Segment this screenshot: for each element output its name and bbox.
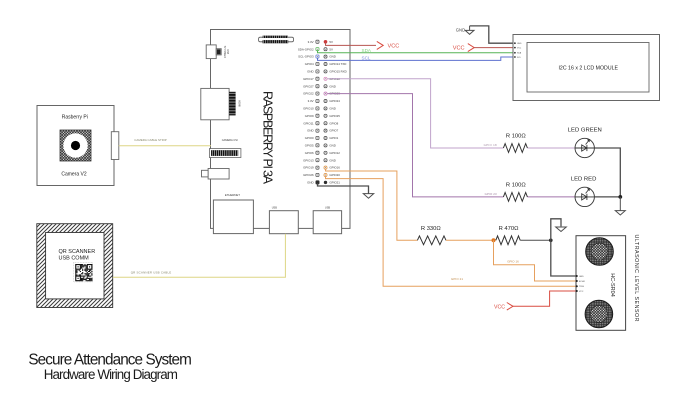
svg-text:USB: USB [325, 207, 330, 210]
svg-text:GND: GND [307, 70, 313, 74]
QR scanner USB COMM module [37, 224, 113, 308]
GPIO pin row 4: GPIO4 / GPIO14 TXD [305, 62, 347, 66]
svg-text:5V POWER: 5V POWER [223, 46, 225, 58]
svg-text:R 330Ω: R 330Ω [421, 226, 441, 232]
wire junction to sensor ECHO pin [494, 240, 577, 281]
svg-text:R 100Ω: R 100Ω [506, 134, 526, 140]
svg-text:USB: USB [272, 207, 277, 210]
svg-text:3.3V: 3.3V [308, 99, 314, 103]
ethernet connector [213, 193, 253, 234]
svg-text:5V: 5V [329, 40, 333, 44]
wire SDA (green) from SDA-GPIO2 to LCD [318, 48, 515, 53]
board label RASPBERRY PI 3A [260, 91, 274, 185]
svg-text:TRIG: TRIG [579, 286, 584, 288]
svg-text:HC-SR04: HC-SR04 [609, 273, 615, 297]
GPIO pin row 15: GPIO5 / GND [305, 144, 336, 148]
svg-text:GPIO 16: GPIO 16 [507, 259, 519, 263]
svg-text:QR SCANNER: QR SCANNER [59, 249, 96, 255]
svg-text:CAMERA CABLE STRIP: CAMERA CABLE STRIP [134, 138, 166, 142]
svg-text:Secure Attendance System: Secure Attendance System [28, 351, 192, 368]
svg-text:GPIO9: GPIO9 [305, 114, 314, 118]
svg-text:GPIO25: GPIO25 [329, 114, 340, 118]
USB port 1 [269, 207, 298, 234]
svg-text:LED GREEN: LED GREEN [568, 127, 602, 133]
wire VCC from 5V pin to arrow [326, 43, 377, 46]
svg-text:SDA: SDA [362, 48, 372, 53]
wire SCL (blue) from SCL-GPIO3 to LCD [318, 56, 515, 61]
svg-text:I2C 16 x 2 LCD MODULE: I2C 16 x 2 LCD MODULE [558, 66, 618, 72]
svg-text:Camera V2: Camera V2 [61, 172, 87, 178]
GPIO pin row 13: GND / GPIO7 [307, 129, 338, 133]
VCC arrow at LCD [453, 44, 474, 52]
GPIO pin row 2: SDA-GPIO2 / 5V [298, 47, 333, 51]
svg-text:GND: GND [517, 43, 522, 45]
svg-text:GPIO11: GPIO11 [303, 121, 314, 125]
raspberry pi camera V2 module [37, 106, 119, 186]
svg-text:CAMERA CSI: CAMERA CSI [222, 138, 238, 142]
svg-text:GPIO20: GPIO20 [329, 173, 340, 177]
svg-text:SCL: SCL [362, 56, 371, 61]
GPIO pin row 1: 3.3V / 5V [308, 40, 333, 44]
svg-text:GPIO19: GPIO19 [303, 166, 314, 170]
svg-text:USB COMM: USB COMM [59, 256, 90, 262]
svg-text:VCC: VCC [579, 291, 584, 293]
wire junction to sensor GND pin [551, 240, 577, 276]
resistor R 330 [417, 226, 492, 245]
svg-text:USB: USB [226, 49, 228, 54]
svg-text:GND: GND [579, 276, 584, 278]
GPIO pin row 5: GND / GPIO15 RXD [307, 70, 347, 74]
LED red D2 [571, 177, 597, 207]
svg-text:Hardware Wiring Diagram: Hardware Wiring Diagram [44, 367, 178, 382]
wire GND to LCD [470, 26, 515, 43]
subtitle text [44, 367, 178, 382]
GPIO pin row 8: GPIO22 / GPIO23 [303, 92, 340, 96]
wire VCC to sensor VCC pin [513, 291, 577, 306]
resistor R 470 [496, 226, 551, 245]
svg-text:GPIO21: GPIO21 [329, 181, 340, 185]
svg-text:SCL-GPIO3: SCL-GPIO3 [298, 55, 314, 59]
svg-text:R 470Ω: R 470Ω [499, 226, 519, 232]
GPIO pin row 10: GPIO10 / GND [303, 107, 336, 111]
wire LED red to junction [594, 196, 620, 198]
ground symbol near R470 [556, 227, 567, 232]
I2C 16x2 LCD module [513, 35, 660, 101]
svg-text:VCC: VCC [517, 47, 522, 49]
wire camera cable strip [119, 138, 211, 146]
svg-text:3.3V: 3.3V [308, 40, 314, 44]
GPIO pin row 3: SCL-GPIO3 / GND [298, 55, 336, 59]
svg-text:GPIO 18: GPIO 18 [484, 143, 497, 147]
wire GPIO18 (pale purple) to resistor [327, 79, 575, 148]
svg-text:GPIO1: GPIO1 [329, 136, 338, 140]
raspberry pi 3A board outline [211, 30, 351, 229]
svg-text:GPIO6: GPIO6 [305, 151, 314, 155]
QR code graphic [74, 262, 93, 282]
ultrasonic sensor HC-SR04 [576, 236, 626, 331]
svg-text:R 100Ω: R 100Ω [506, 183, 526, 189]
svg-text:GND: GND [329, 84, 335, 88]
svg-text:GPIO12: GPIO12 [329, 151, 340, 155]
HDMI connector [201, 88, 242, 119]
svg-text:GPIO4: GPIO4 [305, 62, 314, 66]
svg-text:GND: GND [456, 27, 465, 32]
GPIO pin row 19: GPIO26 / GPIO20 [303, 173, 340, 177]
svg-text:GPIO13: GPIO13 [303, 158, 314, 162]
svg-text:GPIO 23: GPIO 23 [485, 192, 497, 196]
wire GND pin to ground [318, 183, 369, 193]
svg-text:ULTRASONIC LEVEL SENSOR: ULTRASONIC LEVEL SENSOR [633, 235, 639, 322]
sensor label ULTRASONIC LEVEL SENSOR [633, 235, 639, 322]
svg-text:GPIO24: GPIO24 [329, 99, 340, 103]
title text [28, 351, 192, 368]
VCC arrow near board [377, 41, 400, 49]
svg-text:5V: 5V [329, 47, 333, 51]
wire GPIO23 (purple) to resistor [327, 94, 575, 197]
svg-text:GPIO0: GPIO0 [305, 136, 314, 140]
VCC arrow for sensor [494, 303, 513, 311]
GPIO pin row 11: GPIO9 / GPIO25 [305, 114, 340, 118]
ground symbol below board [363, 193, 373, 198]
svg-text:VCC: VCC [453, 46, 465, 52]
GPIO pin row 20: GND / GPIO21 [307, 181, 340, 185]
svg-text:GPIO14 TXD: GPIO14 TXD [329, 62, 346, 66]
ground symbol LED cathode rail [615, 197, 625, 215]
svg-text:GND: GND [329, 55, 335, 59]
svg-text:GPIO22: GPIO22 [303, 92, 314, 96]
wire GPIO20 (orange) to sensor TRIG pin [326, 176, 577, 286]
GPIO pin row 7: GPIO27 / GND [303, 84, 336, 88]
svg-text:RASPBERRY PI 3A: RASPBERRY PI 3A [260, 91, 274, 185]
svg-text:SDA-GPIO2: SDA-GPIO2 [298, 47, 314, 51]
svg-text:GPIO15 RXD: GPIO15 RXD [329, 70, 346, 74]
GPIO header connector J8 [259, 36, 294, 44]
ground symbol at LCD GND net [456, 26, 474, 34]
LCD pins GND VCC SDA SCL [514, 42, 522, 59]
svg-text:VCC: VCC [494, 304, 505, 310]
wire QR scanner USB cable [113, 234, 286, 277]
svg-text:HDMI: HDMI [237, 100, 241, 107]
svg-text:GND: GND [329, 158, 335, 162]
svg-text:ECHO: ECHO [579, 281, 585, 283]
sensor pins GND ECHO TRIG VCC [576, 275, 586, 293]
resistor R 100 (LED red) [503, 183, 527, 202]
svg-text:GND: GND [329, 144, 335, 148]
wire GPIO16 (orange) to R330 [326, 169, 418, 241]
svg-text:VCC: VCC [388, 44, 400, 50]
junction node R470/GND [549, 239, 553, 243]
camera CSI connector [209, 138, 241, 158]
svg-text:Rasberry Pi: Rasberry Pi [62, 114, 88, 120]
GPIO pin row 17: GPIO13 / GND [303, 158, 336, 162]
junction node LED cathodes [618, 195, 622, 199]
svg-text:GPIO10: GPIO10 [303, 107, 314, 111]
wire VCC to LCD [474, 47, 515, 49]
5V power USB connector [206, 45, 228, 59]
GPIO pin row 12: GPIO11 / GPIO8 [303, 121, 338, 125]
wire LED green to common cathode rail [594, 148, 620, 197]
svg-text:GND: GND [307, 129, 313, 133]
junction node R330/R470/ECHO [492, 238, 496, 242]
GPIO pin row 16: GPIO6 / GPIO12 [305, 151, 340, 155]
svg-text:GPIO8: GPIO8 [329, 121, 338, 125]
svg-text:GPIO26: GPIO26 [303, 173, 314, 177]
svg-text:GPIO7: GPIO7 [329, 129, 338, 133]
wire junction to ground hook [551, 219, 561, 241]
svg-text:LED RED: LED RED [571, 177, 597, 183]
svg-text:GPIO17: GPIO17 [303, 77, 314, 81]
svg-text:GPIO27: GPIO27 [303, 84, 314, 88]
GPIO pin row 9: 3.3V / GPIO24 [308, 99, 341, 103]
svg-text:GND: GND [329, 107, 335, 111]
GPIO pin row 14: GPIO0 / GPIO1 [305, 136, 339, 140]
svg-text:SDA: SDA [517, 52, 522, 55]
svg-text:GPIO5: GPIO5 [305, 144, 314, 148]
resistor R 100 (LED green) [503, 134, 527, 153]
svg-text:GPIO 21: GPIO 21 [451, 277, 463, 281]
svg-text:QR SCANNER USB CABLE: QR SCANNER USB CABLE [131, 271, 172, 275]
svg-text:ETHERNET: ETHERNET [225, 193, 240, 197]
LED green D1 [568, 127, 602, 157]
GPIO pin row 18: GPIO19 / GPIO16 [303, 166, 340, 170]
GPIO pin row 6: GPIO17 / GPIO18 [303, 77, 340, 81]
svg-text:GND: GND [307, 181, 313, 185]
svg-text:GPIO16: GPIO16 [329, 166, 340, 170]
aux connector [202, 169, 230, 180]
USB port 2 [313, 207, 341, 234]
